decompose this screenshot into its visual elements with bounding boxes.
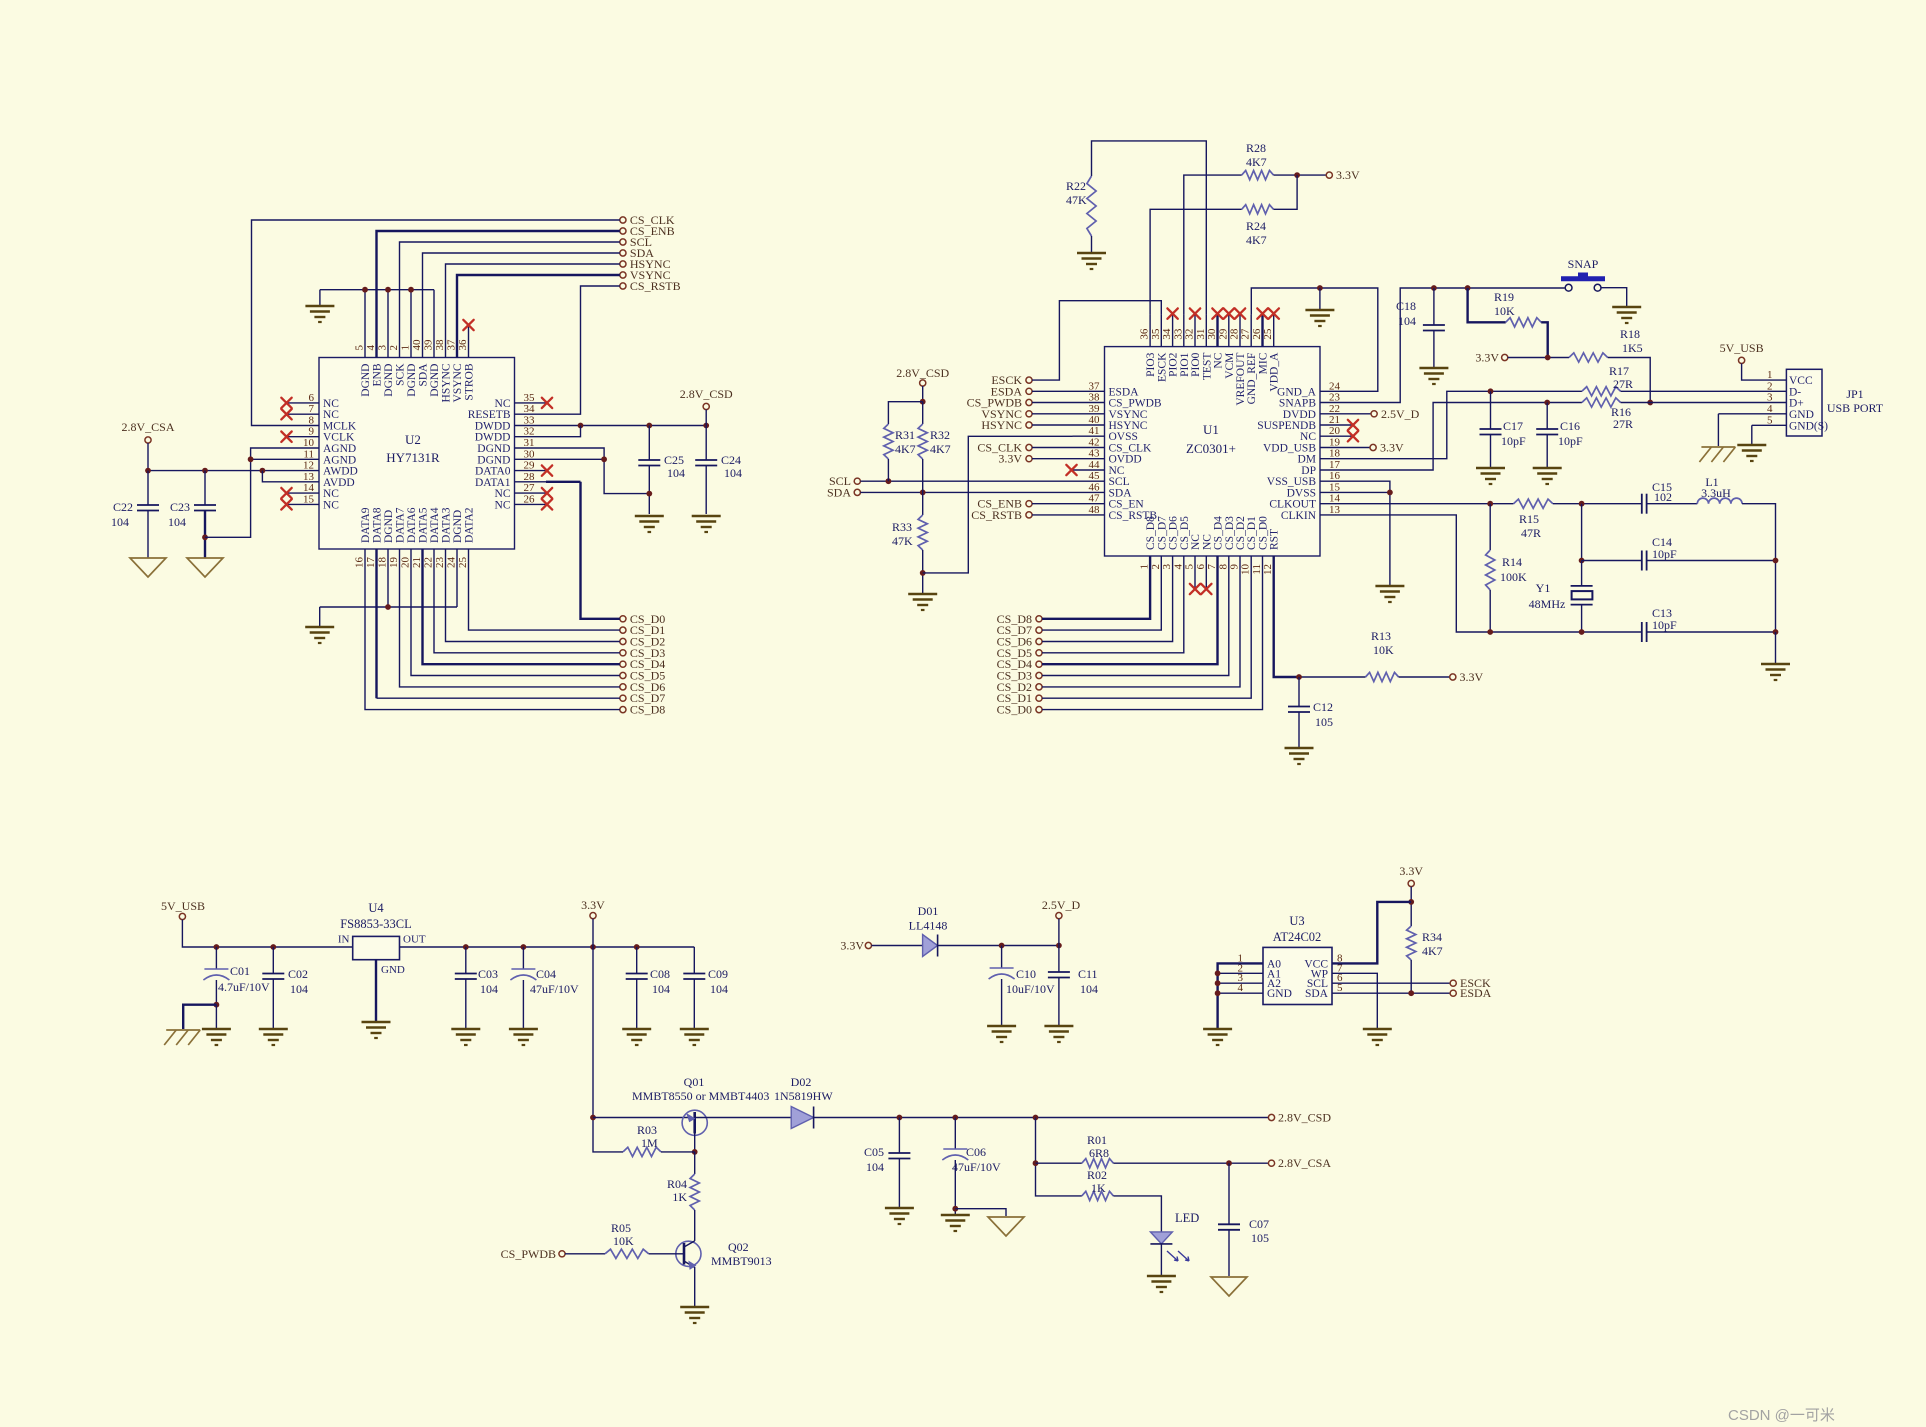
svg-text:2: 2 [1150, 564, 1162, 570]
svg-text:DATA4: DATA4 [429, 507, 441, 543]
svg-text:27R: 27R [1613, 377, 1633, 391]
svg-text:37: 37 [1089, 380, 1101, 392]
svg-text:40: 40 [1089, 414, 1101, 426]
svg-text:C25: C25 [664, 453, 684, 467]
svg-text:DGND: DGND [383, 364, 395, 397]
svg-text:2.5V_D: 2.5V_D [1042, 898, 1081, 912]
svg-text:C06: C06 [966, 1145, 986, 1159]
svg-text:11: 11 [1251, 564, 1263, 575]
svg-text:CS_D6: CS_D6 [1168, 516, 1180, 550]
svg-text:2.8V_CSD: 2.8V_CSD [896, 366, 949, 380]
svg-text:U4: U4 [368, 901, 384, 915]
svg-text:CS_D2: CS_D2 [1235, 516, 1247, 550]
svg-text:1K5: 1K5 [1622, 341, 1643, 355]
svg-text:C02: C02 [288, 967, 308, 981]
svg-text:3.3V: 3.3V [1336, 168, 1360, 182]
svg-text:U1: U1 [1203, 422, 1219, 437]
svg-text:28: 28 [524, 471, 536, 483]
svg-text:104: 104 [652, 982, 670, 996]
svg-text:DGND: DGND [406, 364, 418, 397]
svg-text:104: 104 [667, 466, 685, 480]
svg-text:PIO0: PIO0 [1190, 352, 1202, 377]
svg-text:ENB: ENB [372, 363, 384, 386]
svg-text:C17: C17 [1503, 419, 1523, 433]
svg-text:3: 3 [1767, 392, 1773, 404]
svg-text:3: 3 [1161, 564, 1173, 570]
svg-text:MCLK: MCLK [323, 421, 357, 433]
svg-text:33: 33 [524, 415, 536, 427]
svg-text:CS_D5: CS_D5 [1179, 516, 1191, 550]
svg-text:VCLK: VCLK [323, 432, 355, 444]
svg-text:C24: C24 [721, 453, 741, 467]
svg-text:1K: 1K [1091, 1181, 1106, 1195]
svg-text:VCM: VCM [1224, 353, 1236, 379]
svg-text:CS_D0: CS_D0 [1258, 516, 1270, 550]
svg-text:8: 8 [1217, 564, 1229, 570]
svg-text:12: 12 [1262, 564, 1274, 575]
svg-text:36: 36 [457, 339, 469, 351]
svg-text:OVSS: OVSS [1109, 431, 1138, 443]
svg-text:NC: NC [495, 499, 511, 511]
svg-text:22: 22 [1329, 403, 1340, 415]
svg-text:3.3uH: 3.3uH [1701, 486, 1731, 500]
svg-text:ESDA: ESDA [1460, 986, 1492, 1000]
svg-text:FS8853-33CL: FS8853-33CL [340, 917, 412, 931]
svg-text:DWDD: DWDD [475, 421, 511, 433]
svg-text:26: 26 [524, 493, 536, 505]
svg-text:CS_RSTB: CS_RSTB [971, 508, 1022, 522]
svg-text:10: 10 [303, 437, 315, 449]
svg-text:44: 44 [1089, 459, 1101, 471]
svg-text:C10: C10 [1016, 967, 1036, 981]
svg-text:3.3V: 3.3V [1399, 864, 1423, 878]
svg-text:13: 13 [1329, 504, 1341, 516]
svg-text:30: 30 [524, 448, 536, 460]
svg-text:100K: 100K [1500, 570, 1527, 584]
svg-text:SUSPENDB: SUSPENDB [1257, 420, 1316, 432]
svg-text:1M: 1M [641, 1136, 658, 1150]
svg-text:4: 4 [1767, 403, 1773, 415]
svg-text:DATA0: DATA0 [475, 466, 511, 478]
svg-text:22: 22 [423, 557, 435, 568]
svg-text:R01: R01 [1087, 1133, 1107, 1147]
svg-text:C07: C07 [1249, 1217, 1269, 1231]
svg-text:10uF/10V: 10uF/10V [1006, 982, 1055, 996]
svg-text:C04: C04 [536, 967, 556, 981]
svg-text:26: 26 [1251, 328, 1263, 340]
svg-text:5V_USB: 5V_USB [161, 899, 205, 913]
svg-text:HSYNC: HSYNC [981, 418, 1022, 432]
svg-text:47uF/10V: 47uF/10V [952, 1160, 1001, 1174]
svg-text:3.3V: 3.3V [840, 939, 864, 953]
svg-text:3.3V: 3.3V [581, 898, 605, 912]
svg-text:3.3V: 3.3V [998, 452, 1022, 466]
svg-text:104: 104 [710, 982, 728, 996]
svg-text:NC: NC [495, 398, 511, 410]
svg-text:29: 29 [524, 460, 536, 472]
svg-text:4K7: 4K7 [895, 442, 916, 456]
svg-text:4: 4 [1238, 982, 1244, 994]
svg-text:5: 5 [1767, 414, 1773, 426]
svg-text:R17: R17 [1609, 364, 1629, 378]
svg-text:2: 2 [388, 345, 400, 351]
svg-text:29: 29 [1217, 328, 1229, 340]
svg-text:21: 21 [411, 557, 423, 568]
svg-text:9: 9 [309, 426, 315, 438]
svg-text:Q02: Q02 [728, 1240, 749, 1254]
svg-text:CS_D0: CS_D0 [997, 703, 1032, 717]
svg-text:MIC: MIC [1258, 352, 1270, 374]
svg-text:CS_PWDB: CS_PWDB [501, 1247, 556, 1261]
svg-text:105: 105 [1251, 1231, 1269, 1245]
svg-text:10K: 10K [1373, 643, 1394, 657]
svg-text:23: 23 [434, 557, 446, 569]
svg-text:10pF: 10pF [1652, 618, 1677, 632]
svg-text:CLKOUT: CLKOUT [1269, 499, 1316, 511]
svg-text:3.3V: 3.3V [1475, 351, 1499, 365]
svg-text:HSYNC: HSYNC [1109, 420, 1148, 432]
svg-text:48MHz: 48MHz [1529, 597, 1566, 611]
svg-text:33: 33 [1172, 328, 1184, 340]
svg-text:CLKIN: CLKIN [1281, 510, 1317, 522]
svg-text:VSS_USB: VSS_USB [1267, 476, 1317, 488]
svg-text:NC: NC [1213, 352, 1225, 368]
svg-text:VCC: VCC [1789, 375, 1813, 387]
svg-text:104: 104 [480, 982, 498, 996]
svg-text:CS_PWDB: CS_PWDB [1109, 398, 1162, 410]
svg-text:GND: GND [1789, 409, 1814, 421]
svg-text:5V_USB: 5V_USB [1720, 341, 1764, 355]
svg-text:C05: C05 [864, 1145, 884, 1159]
svg-text:30: 30 [1206, 328, 1218, 340]
svg-text:NC: NC [495, 488, 511, 500]
svg-text:OUT: OUT [403, 934, 426, 946]
svg-text:SNAPB: SNAPB [1279, 398, 1316, 410]
svg-text:31: 31 [1195, 329, 1207, 340]
svg-text:GND_A: GND_A [1277, 386, 1317, 398]
svg-text:12: 12 [303, 460, 314, 472]
svg-text:DGND: DGND [429, 364, 441, 397]
svg-text:R24: R24 [1246, 219, 1266, 233]
svg-text:6: 6 [1195, 564, 1207, 570]
svg-text:10K: 10K [613, 1234, 634, 1248]
svg-text:SDA: SDA [827, 485, 851, 499]
svg-text:47R: 47R [1521, 526, 1541, 540]
svg-text:SCL: SCL [1109, 476, 1130, 488]
svg-text:OVDD: OVDD [1109, 454, 1142, 466]
svg-text:NC: NC [1190, 534, 1202, 550]
svg-text:20: 20 [400, 557, 412, 569]
svg-text:104: 104 [866, 1160, 884, 1174]
svg-text:NC: NC [1201, 534, 1213, 550]
svg-text:10pF: 10pF [1652, 547, 1677, 561]
svg-text:CS_CLK: CS_CLK [1109, 443, 1153, 455]
svg-text:41: 41 [1089, 425, 1100, 437]
svg-text:11: 11 [303, 448, 314, 460]
svg-text:DGND: DGND [477, 454, 510, 466]
svg-text:1N5819HW: 1N5819HW [774, 1089, 833, 1103]
svg-text:1K: 1K [672, 1190, 687, 1204]
svg-text:CS_EN: CS_EN [1109, 499, 1145, 511]
svg-text:DATA3: DATA3 [441, 507, 453, 543]
svg-text:TEST: TEST [1201, 353, 1213, 380]
svg-text:2.8V_CSA: 2.8V_CSA [121, 420, 174, 434]
svg-text:24: 24 [446, 557, 458, 569]
svg-text:C12: C12 [1313, 700, 1333, 714]
svg-text:AVDD: AVDD [323, 477, 355, 489]
svg-text:17: 17 [365, 557, 377, 569]
svg-text:104: 104 [168, 515, 186, 529]
svg-text:31: 31 [524, 437, 535, 449]
svg-text:4K7: 4K7 [1246, 233, 1267, 247]
svg-text:37: 37 [446, 339, 458, 351]
svg-text:39: 39 [1089, 403, 1101, 415]
svg-text:4K7: 4K7 [1246, 155, 1267, 169]
svg-text:4.7uF/10V: 4.7uF/10V [218, 980, 270, 994]
svg-text:5: 5 [1184, 564, 1196, 570]
svg-text:DATA9: DATA9 [360, 507, 372, 543]
svg-text:GND: GND [381, 964, 405, 976]
svg-text:RESETB: RESETB [468, 409, 511, 421]
svg-text:15: 15 [1329, 481, 1341, 493]
svg-text:AWDD: AWDD [323, 466, 358, 478]
svg-text:19: 19 [1329, 437, 1341, 449]
svg-text:2.8V_CSD: 2.8V_CSD [680, 387, 733, 401]
svg-text:47K: 47K [1066, 193, 1087, 207]
svg-text:27R: 27R [1613, 417, 1633, 431]
svg-text:21: 21 [1329, 414, 1340, 426]
svg-text:SNAP: SNAP [1568, 257, 1599, 271]
svg-text:25: 25 [1262, 328, 1274, 340]
svg-text:27: 27 [524, 482, 536, 494]
svg-text:VDD_A: VDD_A [1269, 352, 1281, 392]
svg-text:DM: DM [1297, 454, 1316, 466]
svg-text:5: 5 [354, 345, 366, 351]
svg-text:1: 1 [1139, 564, 1151, 570]
svg-text:CS_D3: CS_D3 [1224, 516, 1236, 550]
svg-text:27: 27 [1240, 328, 1252, 340]
svg-text:SDA: SDA [418, 363, 430, 387]
svg-text:16: 16 [1329, 470, 1341, 482]
svg-text:GND_REF: GND_REF [1246, 353, 1258, 405]
svg-text:35: 35 [1150, 328, 1162, 340]
svg-text:46: 46 [1089, 481, 1101, 493]
svg-text:PIO3: PIO3 [1145, 352, 1157, 377]
svg-text:AGND: AGND [323, 443, 356, 455]
svg-text:SCK: SCK [395, 363, 407, 386]
svg-text:43: 43 [1089, 448, 1101, 460]
svg-text:C18: C18 [1396, 299, 1416, 313]
svg-text:R22: R22 [1066, 179, 1086, 193]
svg-text:R14: R14 [1502, 555, 1522, 569]
svg-text:DGND: DGND [383, 510, 395, 543]
svg-text:7: 7 [1206, 564, 1218, 570]
svg-text:40: 40 [411, 339, 423, 351]
svg-text:DATA1: DATA1 [475, 477, 511, 489]
svg-text:105: 105 [1315, 715, 1333, 729]
svg-text:2.8V_CSA: 2.8V_CSA [1278, 1156, 1331, 1170]
svg-text:32: 32 [1184, 329, 1196, 340]
svg-text:6: 6 [309, 392, 315, 404]
svg-text:PIO2: PIO2 [1168, 352, 1180, 377]
svg-text:C01: C01 [230, 964, 250, 978]
svg-text:3.3V: 3.3V [1460, 670, 1484, 684]
svg-text:6R8: 6R8 [1089, 1146, 1109, 1160]
svg-text:MMBT9013: MMBT9013 [711, 1254, 772, 1268]
svg-text:C22: C22 [113, 500, 133, 514]
svg-text:VDD_USB: VDD_USB [1263, 443, 1316, 455]
svg-text:10: 10 [1240, 564, 1252, 576]
svg-text:STROB: STROB [464, 363, 476, 400]
svg-text:8: 8 [309, 415, 315, 427]
svg-text:LL4148: LL4148 [909, 919, 948, 933]
svg-text:R19: R19 [1494, 290, 1514, 304]
svg-text:CS_D8: CS_D8 [630, 703, 665, 717]
svg-text:NC: NC [1300, 431, 1316, 443]
svg-text:10pF: 10pF [1558, 434, 1583, 448]
svg-text:10K: 10K [1494, 304, 1515, 318]
svg-text:D+: D+ [1789, 398, 1804, 410]
svg-text:NC: NC [323, 409, 339, 421]
svg-text:2: 2 [1767, 380, 1773, 392]
svg-text:GND(S): GND(S) [1789, 420, 1828, 432]
svg-text:4: 4 [365, 345, 377, 351]
svg-text:DGND: DGND [360, 364, 372, 397]
svg-text:DATA7: DATA7 [395, 507, 407, 543]
svg-text:3: 3 [377, 345, 389, 351]
svg-text:HSYNC: HSYNC [441, 363, 453, 402]
svg-text:ZC0301+: ZC0301+ [1186, 441, 1236, 456]
svg-text:IN: IN [338, 934, 350, 946]
svg-text:102: 102 [1654, 490, 1672, 504]
svg-text:17: 17 [1329, 459, 1341, 471]
svg-text:DGND: DGND [477, 443, 510, 455]
svg-text:18: 18 [1329, 448, 1341, 460]
svg-text:NC: NC [323, 488, 339, 500]
svg-text:R04: R04 [667, 1177, 687, 1191]
svg-text:CSDN @一可米: CSDN @一可米 [1728, 1407, 1835, 1424]
svg-text:SDA: SDA [1305, 988, 1329, 1000]
svg-text:R13: R13 [1371, 629, 1391, 643]
svg-text:C16: C16 [1560, 419, 1580, 433]
svg-text:VREFOUT: VREFOUT [1235, 353, 1247, 406]
svg-text:D02: D02 [791, 1075, 812, 1089]
svg-text:D01: D01 [918, 904, 939, 918]
svg-text:10pF: 10pF [1501, 434, 1526, 448]
svg-text:R31: R31 [895, 428, 915, 442]
svg-text:LED: LED [1175, 1211, 1199, 1225]
svg-text:18: 18 [377, 557, 389, 569]
svg-text:USB PORT: USB PORT [1827, 401, 1884, 415]
svg-text:2.8V_CSD: 2.8V_CSD [1278, 1111, 1331, 1125]
svg-text:DWDD: DWDD [475, 432, 511, 444]
svg-text:104: 104 [724, 466, 742, 480]
svg-text:C03: C03 [478, 967, 498, 981]
svg-text:28: 28 [1229, 328, 1241, 340]
svg-text:U2: U2 [405, 432, 421, 447]
svg-text:38: 38 [1089, 392, 1101, 404]
svg-text:DATA8: DATA8 [372, 507, 384, 543]
svg-text:CS_D1: CS_D1 [1246, 516, 1258, 550]
svg-text:36: 36 [1139, 328, 1151, 340]
svg-text:47K: 47K [892, 534, 913, 548]
svg-text:VSYNC: VSYNC [1109, 409, 1148, 421]
svg-text:PIO1: PIO1 [1179, 352, 1191, 377]
svg-text:4K7: 4K7 [930, 442, 951, 456]
svg-text:R03: R03 [637, 1123, 657, 1137]
svg-text:24: 24 [1329, 380, 1341, 392]
svg-text:R02: R02 [1087, 1168, 1107, 1182]
svg-text:CS_D7: CS_D7 [1156, 516, 1168, 550]
svg-text:34: 34 [1161, 328, 1173, 340]
svg-text:48: 48 [1089, 504, 1101, 516]
svg-text:19: 19 [388, 557, 400, 569]
svg-text:3.3V: 3.3V [1380, 441, 1404, 455]
svg-text:JP1: JP1 [1846, 387, 1863, 401]
svg-text:ESCK: ESCK [1156, 352, 1168, 382]
svg-text:5: 5 [1337, 982, 1343, 994]
svg-text:C23: C23 [170, 500, 190, 514]
svg-text:104: 104 [290, 982, 308, 996]
svg-text:R05: R05 [611, 1221, 631, 1235]
svg-text:38: 38 [434, 339, 446, 351]
svg-text:CS_RSTB: CS_RSTB [630, 279, 681, 293]
svg-text:7: 7 [309, 403, 315, 415]
svg-text:AT24C02: AT24C02 [1273, 930, 1322, 944]
svg-text:35: 35 [524, 392, 536, 404]
svg-text:42: 42 [1089, 437, 1100, 449]
svg-text:Q01: Q01 [684, 1075, 705, 1089]
svg-text:DATA6: DATA6 [406, 507, 418, 543]
svg-text:U3: U3 [1289, 914, 1304, 928]
svg-text:AGND: AGND [323, 454, 356, 466]
svg-text:R33: R33 [892, 520, 912, 534]
svg-text:39: 39 [423, 339, 435, 351]
svg-text:1: 1 [400, 345, 412, 351]
svg-text:R32: R32 [930, 428, 950, 442]
svg-text:DP: DP [1301, 465, 1316, 477]
svg-text:R18: R18 [1620, 327, 1640, 341]
svg-text:ESDA: ESDA [1109, 386, 1140, 398]
svg-text:CS_D4: CS_D4 [1213, 516, 1225, 550]
svg-text:4K7: 4K7 [1422, 944, 1443, 958]
svg-text:104: 104 [111, 515, 129, 529]
svg-text:DVDD: DVDD [1283, 409, 1316, 421]
svg-text:CS_D8: CS_D8 [1145, 516, 1157, 550]
svg-text:GND: GND [1267, 988, 1292, 1000]
svg-text:C09: C09 [708, 967, 728, 981]
svg-text:14: 14 [1329, 493, 1341, 505]
svg-text:1: 1 [1767, 369, 1773, 381]
svg-text:NC: NC [1109, 465, 1125, 477]
svg-text:14: 14 [303, 482, 315, 494]
svg-text:HY7131R: HY7131R [386, 450, 440, 465]
svg-text:104: 104 [1398, 314, 1416, 328]
svg-text:NC: NC [323, 499, 339, 511]
svg-text:MMBT8550 or MMBT4403: MMBT8550 or MMBT4403 [632, 1089, 769, 1103]
svg-text:C08: C08 [650, 967, 670, 981]
svg-text:9: 9 [1229, 564, 1241, 570]
svg-text:DATA2: DATA2 [464, 507, 476, 543]
svg-text:13: 13 [303, 471, 315, 483]
svg-text:C11: C11 [1078, 967, 1098, 981]
svg-text:VSYNC: VSYNC [452, 363, 464, 402]
svg-text:ESCK: ESCK [991, 373, 1022, 387]
svg-text:R34: R34 [1422, 930, 1442, 944]
svg-text:DVSS: DVSS [1287, 487, 1316, 499]
svg-text:R28: R28 [1246, 141, 1266, 155]
svg-text:104: 104 [1080, 982, 1098, 996]
